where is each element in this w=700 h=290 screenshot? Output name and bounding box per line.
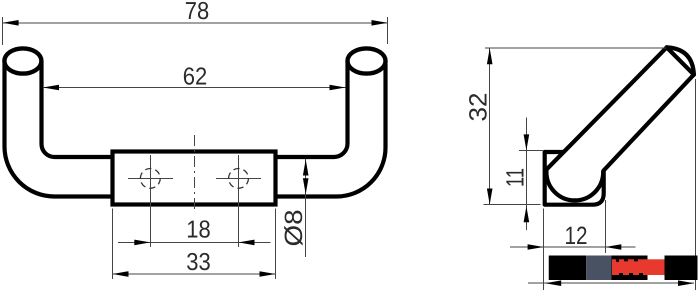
front view: hook inner contour — [42, 61, 348, 157]
dimension 62: line, arrows, text — [43, 87, 346, 89]
logo: red lettering band — [612, 259, 665, 275]
dimension 32: extension lines, line, arrows, rotated text — [484, 48, 666, 205]
side view: bend circle (rod end), clipped to visible lower arc — [546, 144, 603, 201]
svg-text:11: 11 — [502, 168, 530, 187]
logo: black block 2 — [611, 256, 647, 281]
svg-text:12: 12 — [565, 222, 588, 250]
dimension 78: extension lines, line, arrows, text — [3, 17, 388, 45]
dimension diameter 8: vertical line, arrows, rotated text — [305, 159, 307, 257]
svg-text:Ø8: Ø8 — [280, 210, 308, 247]
side view: rod body white fill — [547, 47, 694, 170]
front view: hook outer contour (posts, bends, bottom rod) — [5, 61, 386, 197]
front view: mounting plate block — [113, 152, 276, 205]
dimension 18: line, outside arrows, text — [118, 241, 271, 243]
front view: vertical dash-dot center line — [193, 135, 195, 211]
side view: wall plate with rounded corner — [545, 152, 604, 205]
front view: right hole crosshair — [216, 155, 261, 247]
logo: black block 3 — [665, 256, 698, 281]
svg-text:78: 78 — [185, 0, 210, 25]
svg-text:33: 33 — [186, 249, 211, 276]
dimension 11: extension line, line, outside arrows, rotated text — [519, 118, 543, 231]
front view: left hole dashed circle — [140, 169, 160, 189]
front view: left hole crosshair — [128, 155, 173, 247]
svg-text:32: 32 — [465, 93, 493, 122]
side view: rod edges and end cap — [547, 47, 694, 170]
logo: slate blue block — [586, 256, 611, 281]
front view: right hole dashed circle — [229, 169, 249, 189]
bottom overall dimension (text hidden behind logo): extension line, line, arrows — [528, 79, 696, 290]
front view: left post top ellipse — [4, 48, 41, 73]
dimension 12: extension lines, line, outside arrows, text — [510, 200, 636, 290]
svg-text:62: 62 — [183, 64, 208, 91]
svg-text:18: 18 — [186, 217, 211, 244]
dimension 33: extension lines, line, arrows, text — [113, 209, 276, 280]
logo: black block 1 — [549, 256, 587, 281]
front view: right post top ellipse — [348, 48, 386, 73]
